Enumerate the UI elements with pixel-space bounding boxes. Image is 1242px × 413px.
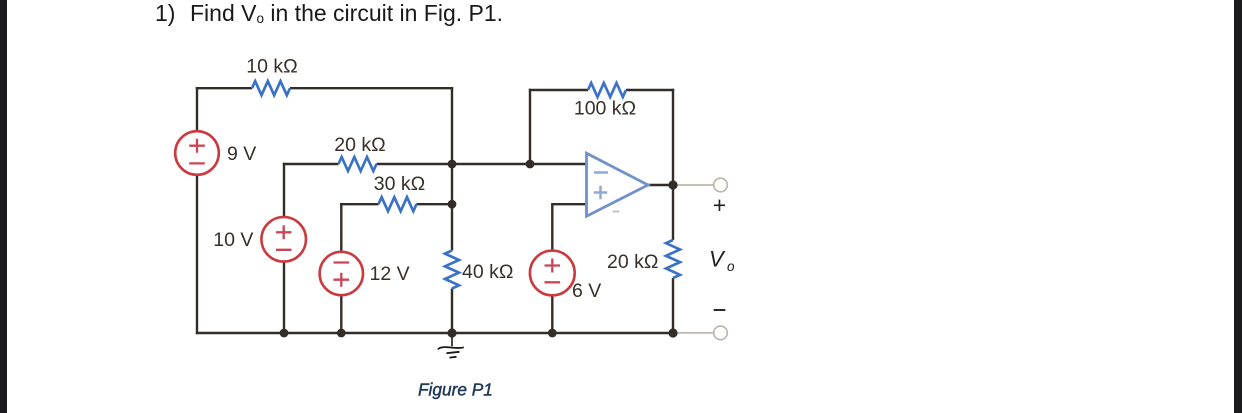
svg-text:V: V [709, 247, 726, 272]
svg-text:10 V: 10 V [213, 229, 253, 251]
svg-text:Figure P1: Figure P1 [418, 380, 493, 400]
svg-text:o: o [727, 259, 735, 274]
svg-text:9 V: 9 V [227, 143, 256, 165]
svg-text:1): 1) [155, 0, 175, 26]
svg-text:100 kΩ: 100 kΩ [574, 98, 636, 120]
svg-text:12 V: 12 V [370, 263, 410, 285]
svg-text:+: + [713, 192, 726, 218]
svg-text:10 kΩ: 10 kΩ [246, 55, 297, 77]
svg-text:Find Vo in the circuit in Fig.: Find Vo in the circuit in Fig. P1. [190, 0, 503, 26]
svg-text:30 kΩ: 30 kΩ [374, 173, 425, 195]
svg-text:20 kΩ: 20 kΩ [607, 251, 658, 273]
svg-text:20 kΩ: 20 kΩ [334, 134, 385, 156]
svg-text:40 kΩ: 40 kΩ [462, 261, 513, 283]
svg-text:6 V: 6 V [572, 280, 601, 302]
